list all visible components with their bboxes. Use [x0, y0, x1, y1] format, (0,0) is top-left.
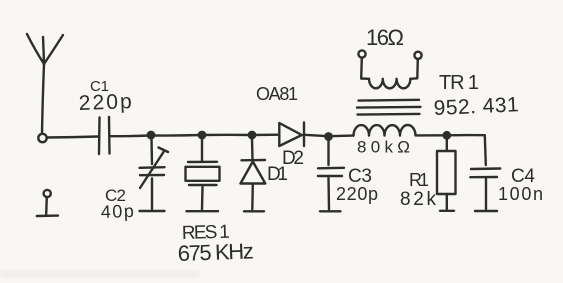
resistor R1 — [437, 139, 456, 211]
svg-text:220p: 220p — [78, 90, 136, 115]
svg-text:100n: 100n — [498, 184, 545, 204]
capacitor C1 — [99, 117, 110, 154]
terminal (antenna input) — [38, 134, 46, 142]
earth terminal — [37, 190, 58, 216]
svg-text:220p: 220p — [336, 184, 380, 204]
wire — [329, 134, 354, 137]
diode D2 — [279, 123, 304, 147]
wire — [447, 135, 486, 165]
svg-text:82k: 82k — [400, 189, 437, 210]
node B — [198, 131, 207, 140]
svg-text:TR 1: TR 1 — [439, 72, 482, 94]
wire — [110, 134, 152, 137]
svg-text:OA81: OA81 — [256, 84, 299, 104]
svg-text:16Ω: 16Ω — [366, 25, 406, 50]
wire — [252, 133, 279, 136]
wire — [304, 135, 329, 136]
capacitor C4 — [470, 169, 500, 212]
node E — [442, 131, 451, 140]
svg-text:952. 431: 952. 431 — [433, 93, 519, 120]
node D — [324, 132, 333, 141]
svg-text:80kΩ: 80kΩ — [357, 138, 412, 157]
wire — [416, 134, 447, 136]
svg-text:675 KHz: 675 KHz — [177, 238, 255, 266]
node C — [248, 131, 257, 140]
wire — [47, 137, 99, 138]
capacitor C2 (variable) — [140, 139, 169, 211]
transformer TR1 secondary winding — [358, 50, 421, 88]
node A — [147, 131, 156, 140]
wire — [202, 134, 252, 137]
diode D1 — [241, 139, 266, 211]
wire — [151, 134, 202, 137]
transformer TR1 core — [357, 100, 421, 115]
inductor L1 (transformer primary 80kΩ) — [354, 125, 416, 136]
capacitor C3 — [318, 140, 344, 211]
svg-text:40p: 40p — [100, 201, 136, 222]
resonator RES1 — [186, 139, 220, 211]
svg-text:R1: R1 — [409, 170, 429, 190]
svg-text:D1: D1 — [267, 164, 288, 185]
scan smudge bottom-left — [0, 270, 200, 278]
antenna — [27, 34, 63, 133]
